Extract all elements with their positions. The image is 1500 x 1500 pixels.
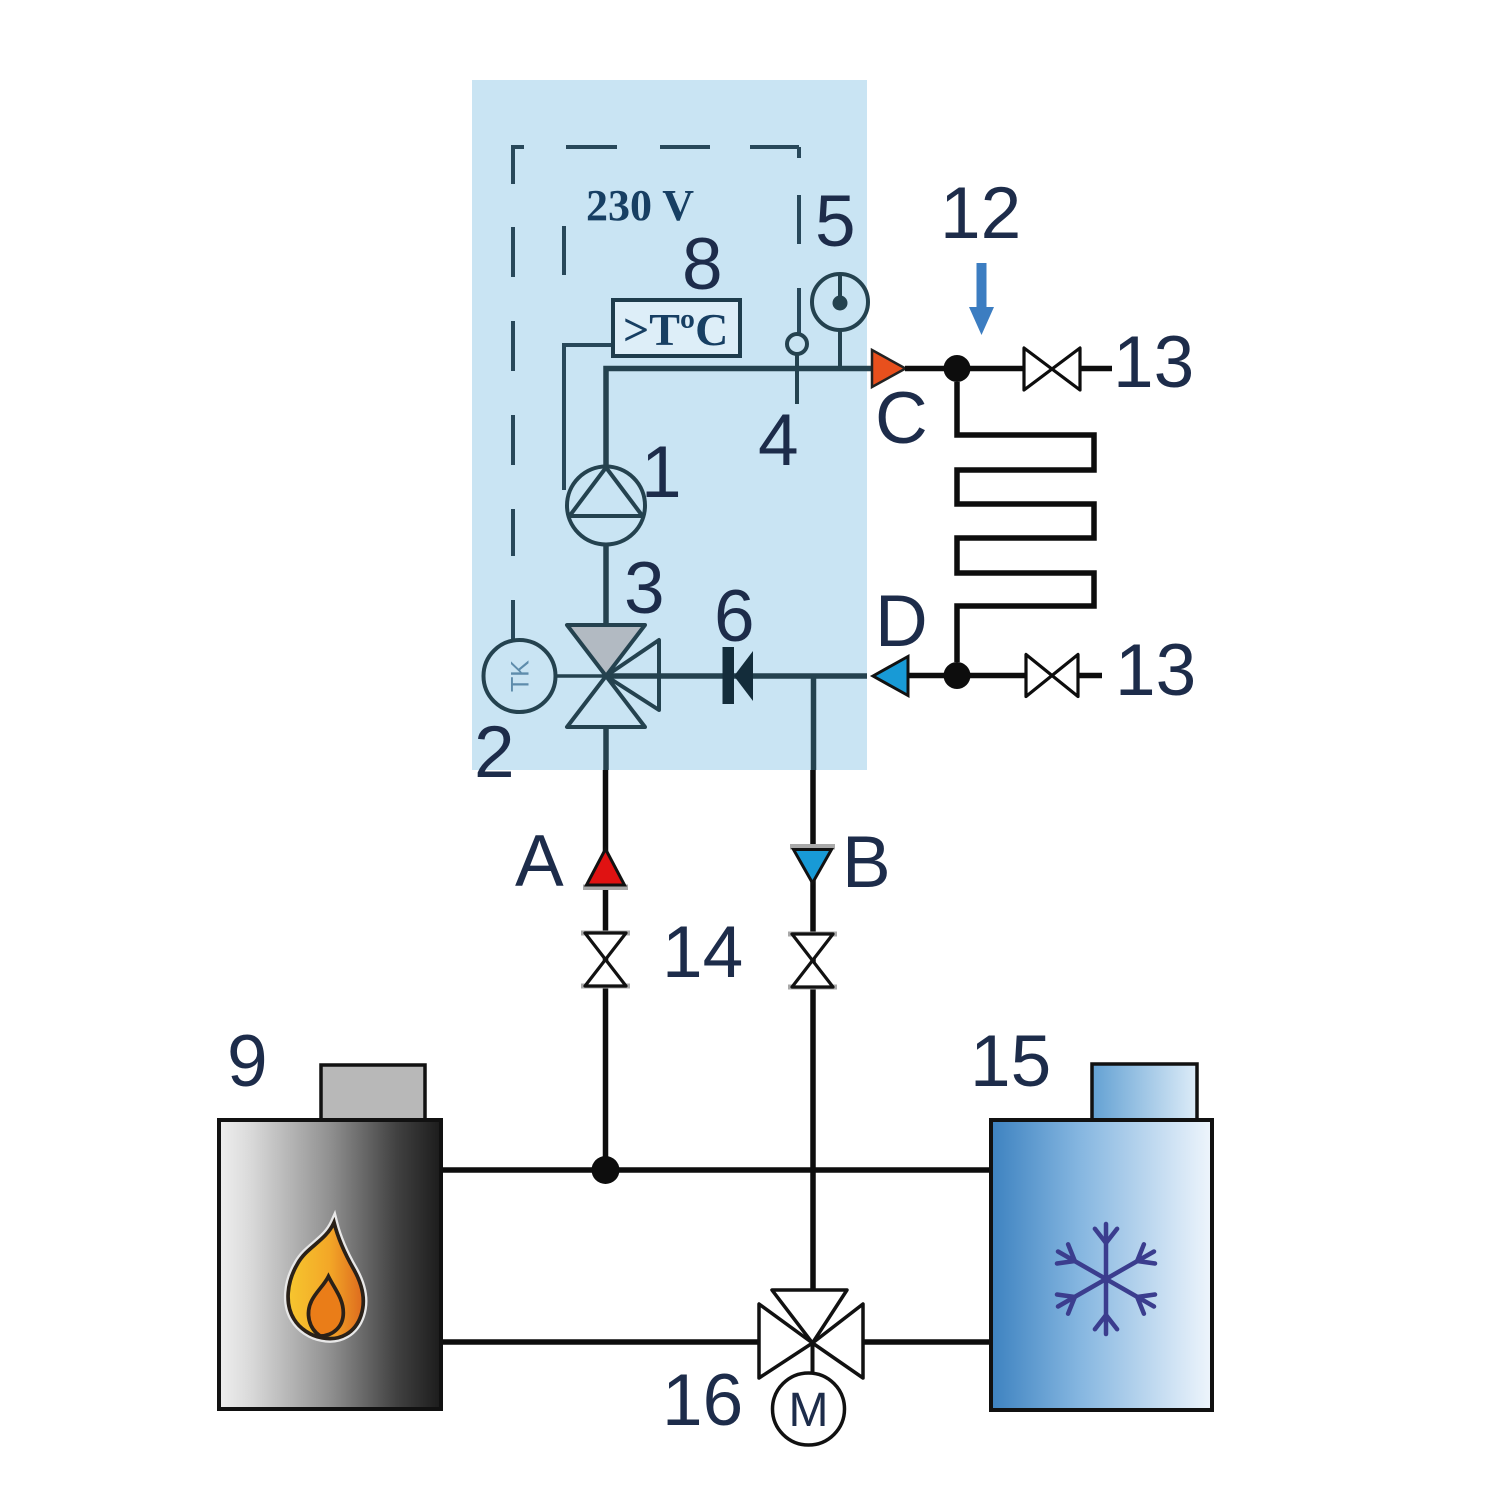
svg-text:5: 5 bbox=[815, 181, 856, 262]
svg-text:9: 9 bbox=[227, 1021, 268, 1102]
svg-text:>TºC: >TºC bbox=[623, 304, 728, 355]
pipe C to radiator bbox=[905, 366, 1024, 372]
svg-text:4: 4 bbox=[758, 400, 799, 481]
pipe boiler-chiller bottom bbox=[441, 1339, 991, 1345]
pipe A vertical bbox=[603, 770, 609, 1170]
pipe valve3 down (A) bbox=[603, 678, 609, 770]
arrow A bbox=[583, 885, 628, 891]
boiler 9 bbox=[219, 1120, 441, 1409]
mixing valve 3 bbox=[567, 625, 645, 676]
svg-text:14: 14 bbox=[662, 912, 743, 993]
230V dashed box top bbox=[513, 145, 799, 149]
pipe B inside panel bbox=[811, 676, 817, 770]
svg-text:TK: TK bbox=[507, 660, 535, 692]
motor valve 16 bbox=[811, 1343, 815, 1374]
radiator coil bbox=[957, 382, 1094, 662]
flame icon bbox=[288, 1222, 363, 1338]
valve 13 bottom bbox=[1026, 655, 1078, 697]
control panel background bbox=[472, 80, 867, 770]
dash segment control wire bbox=[562, 226, 566, 275]
svg-text:6: 6 bbox=[714, 576, 755, 657]
svg-text:D: D bbox=[875, 581, 928, 662]
node boiler junction bbox=[592, 1156, 620, 1184]
chiller 15 bbox=[991, 1120, 1212, 1410]
thermometer 5 bbox=[812, 274, 868, 366]
svg-text:2: 2 bbox=[474, 712, 515, 793]
boiler 9 cap bbox=[321, 1065, 425, 1120]
pipe pump to valve3 bbox=[603, 540, 609, 628]
sensor 4 bbox=[795, 353, 799, 404]
valve 14 B bbox=[788, 932, 837, 937]
svg-text:8: 8 bbox=[682, 224, 723, 305]
motor M bbox=[773, 1373, 845, 1445]
svg-text:M: M bbox=[789, 1384, 829, 1437]
svg-text:C: C bbox=[875, 378, 928, 459]
svg-text:B: B bbox=[842, 822, 891, 903]
thermostat box 8 bbox=[613, 300, 740, 356]
pump 1 bbox=[567, 467, 645, 545]
chiller 15 cap bbox=[1092, 1064, 1197, 1120]
svg-text:1: 1 bbox=[641, 432, 682, 513]
svg-text:13: 13 bbox=[1115, 630, 1196, 711]
node D junction bbox=[944, 662, 971, 689]
pipe B vertical bbox=[810, 770, 816, 1290]
svg-text:15: 15 bbox=[970, 1021, 1051, 1102]
arrow B bbox=[790, 844, 835, 850]
230V dashed box left bbox=[511, 145, 515, 641]
svg-text:16: 16 bbox=[662, 1360, 743, 1441]
svg-text:13: 13 bbox=[1113, 322, 1194, 403]
snowflake bbox=[1057, 1224, 1155, 1334]
pipe D from radiator bbox=[908, 673, 1026, 679]
svg-text:3: 3 bbox=[624, 548, 665, 629]
control wire to pump bbox=[564, 345, 612, 490]
arrow C bbox=[872, 350, 906, 387]
230V dashed box right bbox=[797, 147, 801, 333]
svg-text:A: A bbox=[515, 821, 564, 902]
arrow D bbox=[873, 657, 908, 696]
node C junction bbox=[944, 355, 971, 382]
valve 14 A bbox=[581, 931, 630, 936]
thermostat TK 2 bbox=[556, 674, 604, 678]
pipe D inside panel bbox=[604, 673, 867, 679]
main flow pipe C bbox=[606, 369, 872, 473]
valve 13 top bbox=[1024, 348, 1080, 390]
arrow 12 bbox=[969, 263, 994, 335]
svg-text:12: 12 bbox=[940, 173, 1021, 254]
svg-text:230 V: 230 V bbox=[586, 181, 694, 230]
check valve 6 bbox=[723, 647, 735, 704]
pipe boiler-chiller top bbox=[441, 1167, 991, 1173]
